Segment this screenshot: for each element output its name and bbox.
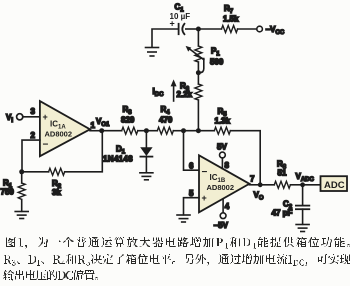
figure caption — [3, 237, 350, 281]
5V terminal — [220, 152, 226, 169]
wire R4 to node A — [173, 130, 183, 132]
node VADC — [300, 182, 305, 187]
node VO1 — [99, 128, 104, 133]
resistor R8 — [274, 181, 290, 188]
svg-text:500: 500 — [210, 58, 224, 67]
diode D1 — [140, 131, 152, 173]
wire node down to P1 — [197, 29, 199, 46]
svg-text:R3: R3 — [123, 105, 133, 116]
node junction C1/R7/P1 — [196, 27, 201, 32]
wire node A down to pin 6 — [184, 131, 200, 171]
svg-text:2: 2 — [31, 131, 36, 140]
wire R8 to node VADC — [290, 184, 302, 186]
pin 2 wire — [22, 140, 40, 172]
svg-text:VO: VO — [254, 191, 264, 202]
svg-text:1.3k: 1.3k — [215, 117, 231, 126]
node A (to pin 6) — [181, 128, 186, 133]
ground (below D1) — [140, 173, 153, 180]
R7 label — [223, 4, 239, 24]
svg-text:2.2k: 2.2k — [177, 90, 193, 99]
node R3/R4/D1 — [144, 128, 149, 133]
wire R5 right and down to output node — [230, 131, 260, 185]
svg-text:+: + — [202, 193, 207, 203]
svg-text:1N4148: 1N4148 — [103, 155, 133, 164]
R5 label — [215, 107, 231, 126]
svg-text:3k: 3k — [52, 188, 61, 197]
ground (below C2) — [296, 225, 309, 232]
resistor R7 — [222, 26, 238, 33]
wire VADC to ADC box — [303, 184, 321, 186]
svg-text:+: + — [170, 19, 175, 29]
D1 label — [103, 145, 133, 164]
svg-text:8: 8 — [225, 161, 230, 170]
svg-text:VADC: VADC — [296, 172, 315, 183]
R4 label — [159, 105, 173, 125]
wire node to R2 — [22, 171, 49, 173]
svg-text:−: − — [202, 167, 208, 178]
svg-text:3: 3 — [31, 107, 36, 116]
svg-text:1: 1 — [91, 121, 96, 130]
svg-text:470: 470 — [159, 116, 173, 125]
svg-text:−: − — [43, 140, 49, 151]
wire VO1 to R3 — [102, 130, 122, 132]
svg-text:VO1: VO1 — [96, 117, 110, 128]
wire R3 to node — [138, 130, 147, 132]
wire C1 to node — [186, 28, 199, 30]
R1 label — [1, 179, 15, 197]
R2 label — [52, 179, 62, 197]
wire opamp output to node VO — [249, 184, 260, 186]
svg-text:VI: VI — [6, 113, 13, 124]
op-amp U1A IC1A — [40, 101, 90, 156]
svg-text:+: + — [43, 112, 48, 122]
resistor R2 — [49, 168, 65, 175]
C2 label — [272, 200, 293, 218]
wire node A to node B — [184, 130, 199, 132]
svg-text:P1: P1 — [211, 47, 220, 58]
svg-text:51: 51 — [278, 169, 287, 178]
capacitor C1 — [179, 24, 185, 34]
R8 label — [277, 160, 287, 178]
wire VO to R8 — [260, 184, 274, 186]
svg-text:5: 5 — [189, 189, 194, 198]
resistor R1 — [18, 172, 25, 212]
potentiometer P1 — [186, 46, 204, 73]
node VO — [258, 182, 263, 187]
wire node to R7 — [198, 28, 221, 30]
wire R2 to VO1 feedback riser — [65, 131, 103, 172]
wire P1 to node — [197, 62, 199, 73]
C1 value label — [170, 3, 191, 29]
wire node to R4 — [146, 130, 157, 132]
terminal -Vcc — [257, 26, 263, 32]
resistor R5 — [214, 127, 230, 134]
svg-text:R4: R4 — [161, 105, 171, 116]
svg-text:AD8002: AD8002 — [207, 183, 235, 192]
R3 label — [121, 105, 135, 125]
svg-text:820: 820 — [121, 116, 135, 125]
wire R6 down to main node — [197, 100, 199, 131]
wire top rail from ground stub to C1 — [152, 29, 178, 47]
R6 label — [177, 82, 193, 100]
svg-text:4: 4 — [225, 202, 230, 211]
svg-text:AD8002: AD8002 — [45, 130, 73, 139]
svg-text:R7: R7 — [224, 4, 234, 15]
ground (below R1) — [15, 212, 28, 219]
pin 5 wire to ground — [184, 198, 200, 215]
node P1 wiper junction — [196, 70, 201, 75]
ground (below pin 5) — [177, 215, 190, 222]
resistor R6 — [195, 84, 202, 100]
wire node B to R5 — [198, 130, 214, 132]
wire VI to pin3 — [23, 116, 40, 118]
svg-text:7: 7 — [250, 175, 255, 184]
capacitor C2 — [296, 185, 309, 225]
resistor R3 — [122, 127, 138, 134]
svg-text:IDC: IDC — [153, 87, 165, 98]
op-amp U1B IC1B — [199, 155, 249, 212]
wire node to R6 — [197, 73, 199, 84]
svg-text:ADC: ADC — [324, 180, 345, 191]
svg-text:5V: 5V — [217, 143, 227, 152]
current arrow IDC — [171, 79, 177, 101]
resistor R4 — [157, 127, 173, 134]
svg-text:−VCC: −VCC — [266, 25, 285, 36]
ADC box — [321, 176, 348, 191]
node feedback R1/R2/pin2 — [19, 169, 24, 174]
ground (top left near C1) — [146, 48, 159, 57]
svg-text:1.5k: 1.5k — [223, 15, 239, 24]
wire opamp output to node VO1 — [90, 130, 102, 132]
svg-text:750: 750 — [1, 188, 15, 197]
input terminal VI — [17, 114, 23, 120]
svg-text:−5V: −5V — [214, 221, 229, 230]
P1 label — [210, 47, 224, 67]
pin 4 stub and -5V terminal — [220, 199, 226, 219]
svg-text:6: 6 — [189, 162, 194, 171]
wire R7 to -Vcc terminal — [238, 28, 257, 30]
node B (bus bottom) — [196, 128, 201, 133]
svg-text:47 pF: 47 pF — [272, 209, 293, 218]
